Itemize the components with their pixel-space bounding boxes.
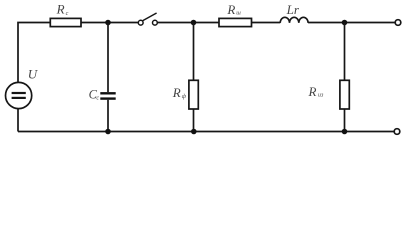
wire: inductor to output terminal [308,22,395,24]
svg-text:ф: ф [182,93,187,100]
svg-text:R: R [56,2,65,17]
wire: switch to R2 [157,22,219,24]
node: middle resistor branch on bottom rail [191,129,197,135]
node: C branch on bottom rail [105,129,111,135]
svg-text:R: R [226,2,235,17]
resistor R_iz (vertical, right) [340,80,349,109]
wire: capacitor branch lower [107,100,109,132]
terminal: bottom right output [394,129,400,135]
svg-text:R: R [172,85,181,100]
wire: right resistor branch lower [344,109,346,132]
resistor R_sh (horizontal, top middle) [219,18,252,26]
node: junction of middle resistor branch on top wire [191,20,197,26]
wire: right resistor branch upper [344,23,346,81]
inductor Lr (three humps) [280,17,308,23]
svg-text:Lr: Lr [286,2,300,17]
wire: R1 to switch [81,22,138,24]
svg-text:R: R [308,84,317,99]
wire: bottom rail [18,131,394,133]
svg-text:из: из [318,93,324,99]
svg-text:ш: ш [236,11,241,17]
wire: R2 to inductor [252,22,281,24]
capacitor C_c plates [100,92,115,94]
svg-text:с: с [66,11,69,17]
node: junction of right resistor branch on top wire [342,20,348,26]
node: junction of C branch on top wire [105,20,111,26]
switch S (open, two contacts and lever) [138,20,143,25]
svg-text:с: с [96,95,99,101]
terminal: top right output [395,20,401,26]
wire: middle resistor branch lower [193,109,195,132]
resistor R_c (horizontal, top left) [50,18,81,26]
source U (circle with two bars, DC source) [6,82,32,108]
node: right resistor branch on bottom rail [342,129,348,135]
svg-text:U: U [28,66,39,81]
wire: capacitor branch upper [107,23,109,93]
wire: middle resistor branch upper [193,23,195,81]
wire: source bottom to bottom rail [17,109,19,132]
resistor R_f (vertical, middle) [189,80,198,109]
wire: left vertical + top segment from source to R1 [18,23,51,83]
